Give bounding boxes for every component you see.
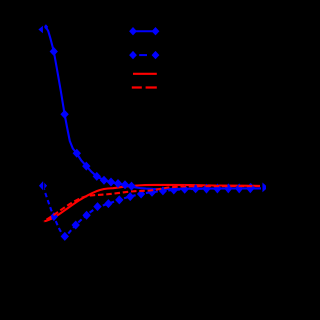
blue solid curve diamond markers xyxy=(44,24,136,190)
blue dashed curve diamond markers xyxy=(39,181,255,241)
red dashed curve line xyxy=(47,186,261,220)
blue dashed curve (perturbation energy) line xyxy=(43,186,261,237)
legend entry 1: blue solid with diamond markers xyxy=(129,27,159,35)
right caret marker (outside axis, clipped by image edge) xyxy=(262,182,266,192)
red solid curve line xyxy=(43,185,260,222)
legend entry 2: blue dashed with diamond markers xyxy=(129,51,159,59)
left y-axis spine (black, cuts slit through markers) xyxy=(43,16,44,282)
right spine (black, cuts slit before right caret) xyxy=(261,16,262,282)
blue solid curve (variational energy) line xyxy=(45,26,261,190)
legend entry 3: red solid line xyxy=(133,73,157,75)
legend entry 4: red dashed line xyxy=(132,86,157,88)
left caret marker (blue solid series, outside axis) xyxy=(38,26,43,33)
big merged marker blob near right edge xyxy=(247,183,255,192)
